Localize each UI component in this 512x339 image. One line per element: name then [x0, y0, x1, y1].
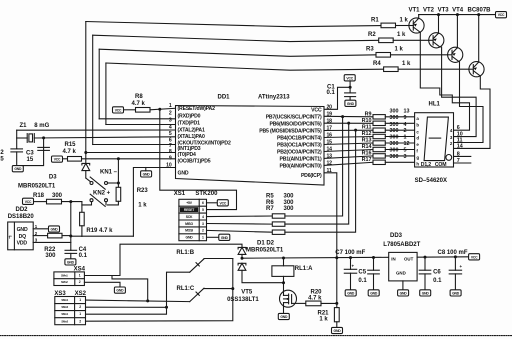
pin label PB2(OC0A/PCINT2)	[277, 150, 322, 156]
value R1 1 k	[400, 18, 409, 24]
pin number 4 DD1	[169, 124, 172, 130]
svg-text:L7805ABD2T: L7805ABD2T	[383, 242, 420, 248]
svg-text:SD–54620X: SD–54620X	[415, 178, 447, 184]
svg-text:GND: GND	[178, 171, 189, 177]
svg-text:DD3: DD3	[390, 233, 403, 239]
svg-text:b: b	[416, 123, 419, 128]
label XS1	[174, 191, 186, 197]
display pin 12	[404, 141, 410, 147]
pin number 2 DD2	[35, 231, 38, 236]
wire XS3 pin2	[86, 306, 169, 309]
label R10	[362, 118, 372, 124]
pin label VDD DD2	[17, 241, 28, 247]
svg-text:300: 300	[45, 253, 56, 259]
resistor R19	[80, 212, 85, 226]
dotted separator line	[0, 335, 512, 337]
display segment letter a	[416, 116, 419, 121]
wire VCC flag to R18	[34, 201, 47, 203]
resistor R10	[373, 121, 385, 125]
svg-text:R7: R7	[266, 206, 274, 212]
pin label (INT1)PD3	[178, 146, 201, 152]
pin label GND	[178, 171, 189, 177]
svg-text:DD1: DD1	[218, 95, 231, 101]
svg-text:(T0)PD4: (T0)PD4	[178, 152, 196, 158]
svg-text:BC807B: BC807B	[468, 8, 492, 14]
svg-text:MBR0520LT1: MBR0520LT1	[246, 248, 284, 254]
display segment letter c	[416, 129, 419, 134]
svg-text:GND: GND	[400, 291, 408, 295]
wire rail to RL1:A	[283, 258, 285, 266]
label C8 100 mF	[438, 250, 468, 256]
svg-text:R21: R21	[318, 310, 330, 316]
wire R9 to display	[385, 116, 414, 118]
svg-text:4.7 k: 4.7 k	[63, 149, 77, 155]
svg-text:DD2: DD2	[16, 207, 29, 213]
wire XS1 MOSI to R7	[207, 230, 273, 232]
wire digit bus 2 vertical	[92, 35, 94, 144]
wire VT4 emitter up	[478, 15, 480, 63]
svg-text:(TXD)PD1: (TXD)PD1	[178, 120, 201, 126]
wire R23 top	[117, 159, 119, 188]
display inner pin 3	[450, 135, 453, 140]
svg-text:1 k: 1 k	[319, 317, 328, 323]
svg-text:300: 300	[390, 148, 399, 154]
pin number 1 DD1	[169, 103, 172, 109]
label C1	[327, 85, 335, 91]
svg-text:SCK: SCK	[186, 215, 193, 219]
wire DD1 pin 12 to R17	[324, 162, 373, 165]
pin number 9 DD1	[169, 156, 172, 162]
svg-text:VCC: VCC	[54, 158, 61, 162]
svg-text:ATtiny2313: ATtiny2313	[258, 95, 290, 101]
svg-text:0.1: 0.1	[433, 278, 442, 284]
label R1	[371, 18, 379, 24]
transistor VT2	[429, 33, 444, 48]
wire R16 to display	[385, 155, 414, 157]
wire DD3 OUT rail	[417, 255, 469, 258]
wire R10 to display	[385, 122, 414, 124]
svg-text:R23: R23	[137, 188, 149, 194]
wire digit bus 3 vertical	[98, 49, 100, 119]
label R17	[362, 157, 372, 163]
svg-text:GND: GND	[143, 172, 151, 176]
pin number 1 DD2	[35, 224, 38, 229]
pin label PB5 (MOSI/DI/SDA/PCINT5)	[259, 129, 322, 135]
capacitor C4	[65, 250, 77, 259]
value R9 300	[390, 108, 399, 114]
wire C1 node to pin 20	[324, 87, 350, 109]
label Z1	[20, 123, 28, 129]
svg-text:C5: C5	[358, 270, 366, 276]
wire display pin 7 stub	[454, 162, 471, 164]
label VT1	[409, 8, 421, 14]
display pin 1	[404, 135, 407, 141]
svg-text:300: 300	[390, 122, 399, 128]
svg-text:2: 2	[404, 128, 407, 134]
display segment letter f	[416, 149, 418, 154]
label RL1:B	[176, 250, 194, 256]
pin label DQ DD2	[19, 234, 27, 240]
svg-text:PB5 (MOSI/DI/SDA/PCINT5): PB5 (MOSI/DI/SDA/PCINT5)	[259, 129, 322, 135]
label D3	[49, 175, 57, 181]
resistor R1	[381, 23, 396, 28]
svg-text:(OC0B/T1)PD5: (OC0B/T1)PD5	[178, 159, 211, 165]
label R13	[362, 138, 372, 144]
ground flag XS1	[219, 234, 230, 240]
pin label PB4(OC1B/PCINT4)	[277, 136, 322, 142]
wire DD1 pin 19 to R9	[324, 115, 373, 118]
pin number 2 DD1	[169, 111, 172, 117]
pin label (OC0B/T1)PD5	[178, 159, 211, 165]
voltage regulator DD3	[389, 252, 417, 281]
pin label PB1(AIN1/PCINT1)	[280, 157, 322, 163]
label BC807B	[468, 8, 492, 14]
wire VT2 emitter up	[438, 15, 440, 34]
label KN2	[93, 191, 111, 197]
svg-text:RL1:B: RL1:B	[176, 250, 194, 256]
svg-text:Z1: Z1	[20, 123, 28, 129]
svg-text:300: 300	[284, 194, 295, 200]
label SD-54620X	[415, 178, 447, 184]
svg-text:XS1: XS1	[174, 191, 186, 197]
svg-text:HL1: HL1	[429, 102, 441, 108]
pin number 11 DD1	[327, 168, 332, 174]
svg-text:300: 300	[284, 206, 295, 212]
display decimal point	[446, 155, 452, 161]
label R4	[373, 61, 381, 67]
svg-text:7: 7	[169, 143, 172, 149]
connector XS3 XS2	[55, 297, 86, 325]
svg-text:R10: R10	[362, 118, 372, 124]
resistor R16	[373, 154, 385, 158]
wire R23 bottom to KN2	[108, 201, 119, 205]
capacitor C3	[38, 138, 50, 151]
svg-text:C8 100 mF: C8 100 mF	[438, 250, 468, 256]
wire R12 to display	[385, 136, 414, 138]
svg-text:R16: R16	[362, 150, 372, 156]
svg-text:KN2 +: KN2 +	[93, 191, 111, 197]
label C5	[358, 270, 366, 276]
wire KN2 to R19 line	[82, 202, 92, 205]
wire VT4 collector to display pin 14	[454, 76, 491, 148]
svg-text:300: 300	[284, 200, 295, 206]
svg-text:MOSI: MOSI	[185, 229, 193, 233]
pin label (TXD)PD1	[178, 120, 201, 126]
wire pin10 flag stub	[145, 168, 147, 171]
wire into pin 8	[86, 152, 176, 154]
ground flag C1	[345, 100, 356, 106]
op-amp U1 MCU body DD1	[176, 106, 325, 186]
svg-text:SMn1: SMn1	[61, 298, 68, 302]
svg-text:R5: R5	[266, 194, 274, 200]
svg-text:C4: C4	[79, 247, 87, 253]
ground flag MCU pin 10	[141, 171, 152, 177]
svg-text:VDD: VDD	[17, 241, 28, 247]
svg-text:RL1:A: RL1:A	[295, 266, 313, 272]
label MBR0520LT1 for D1 D2	[246, 248, 284, 254]
value R23 1 k	[138, 203, 147, 209]
wire into pin 3	[106, 124, 176, 126]
label HL1	[429, 102, 441, 108]
wire digit bus 1 vertical	[85, 22, 87, 164]
svg-text:R13: R13	[362, 138, 372, 144]
display pin 9	[404, 115, 407, 121]
svg-text:PB6(MISO/DO/PCINT6): PB6(MISO/DO/PCINT6)	[270, 121, 322, 127]
power flag VCC at R15	[52, 156, 63, 162]
power flag VCC at R8	[113, 107, 124, 113]
label ATtiny2313	[258, 95, 290, 101]
wire R14 to display	[385, 149, 414, 151]
label RL1:C	[177, 286, 195, 292]
wire DD2 DQ pin to R22	[33, 235, 47, 237]
wire GND riser to pin 10	[133, 168, 175, 237]
pin number 18 DD1	[327, 118, 333, 124]
pin number 3 DD1	[169, 117, 172, 123]
svg-text:OUT: OUT	[404, 256, 414, 261]
svg-text:1: 1	[404, 135, 407, 141]
display pin 4	[404, 122, 407, 128]
svg-text:GND: GND	[51, 228, 59, 232]
svg-text:300: 300	[390, 141, 399, 147]
transistor VT3	[448, 47, 463, 62]
label VT4	[452, 8, 464, 14]
wire C3 down to ground	[17, 150, 44, 165]
ground flag C4	[65, 259, 76, 265]
wire DD2 GND pin	[33, 228, 48, 230]
svg-text:R18: R18	[33, 193, 45, 199]
value C1 0.1	[327, 90, 336, 96]
relay coil RL1:A	[272, 266, 294, 277]
svg-text:XS3: XS3	[54, 291, 66, 297]
svg-text:0.1: 0.1	[358, 278, 367, 284]
label C2 clipped	[0, 150, 4, 156]
resistor R18	[47, 199, 62, 204]
display segment letter e	[416, 142, 419, 147]
resistor R21	[334, 308, 339, 322]
svg-text:VCC: VCC	[220, 201, 227, 205]
value R3 1 k	[395, 47, 404, 53]
label R3	[366, 47, 374, 53]
wire DD2 VDD pin	[33, 241, 71, 243]
pin label PB0(AIN0/PCINT0)	[280, 164, 322, 170]
value R4 1 k	[402, 61, 411, 67]
svg-text:2: 2	[35, 231, 38, 236]
svg-text:3: 3	[35, 238, 38, 243]
display pin 13	[404, 108, 410, 114]
svg-text:PB0(AIN0/PCINT0): PB0(AIN0/PCINT0)	[280, 164, 322, 170]
pin label (XTAL1)PA0	[178, 134, 205, 140]
svg-text:4: 4	[404, 122, 407, 128]
svg-text:PB4(OC1B/PCINT4): PB4(OC1B/PCINT4)	[277, 136, 322, 142]
resistor R3	[376, 53, 391, 58]
pin label (RESET/dW)PA2	[178, 106, 216, 112]
transistor VT5 MOSFET	[280, 290, 297, 307]
resistor R23	[116, 187, 121, 201]
display pin 5	[404, 148, 407, 154]
wire R15 to pin 9	[63, 158, 68, 160]
wire VT5 gate to R20	[292, 302, 306, 304]
label L7805ABD2T	[383, 242, 420, 248]
label R18	[33, 193, 45, 199]
svg-text:12: 12	[404, 141, 410, 147]
wire DD1 pin 15 to R13	[324, 143, 373, 145]
power flag VCC top right	[496, 12, 507, 18]
value C4 0.1	[79, 253, 88, 259]
label R8	[135, 94, 143, 100]
wire R13 to display	[385, 142, 414, 144]
svg-text:C2: C2	[0, 150, 4, 156]
value R17 300	[390, 154, 399, 160]
svg-text:C3: C3	[26, 151, 34, 157]
svg-text:R6: R6	[266, 200, 274, 206]
ground flag C6	[420, 290, 431, 296]
svg-text:C7 100 mF: C7 100 mF	[335, 250, 365, 256]
wire VT1 emitter up	[418, 15, 420, 19]
svg-text:VT4: VT4	[452, 8, 464, 14]
pin number 5 DD1	[169, 131, 172, 137]
svg-text:20: 20	[327, 105, 333, 111]
resistor R7	[272, 230, 285, 234]
svg-text:0SS138LT1: 0SS138LT1	[227, 297, 259, 303]
label 0SS138LT1	[227, 297, 259, 303]
svg-text:1 k: 1 k	[138, 203, 147, 209]
display pin 7 label	[457, 158, 460, 164]
capacitor C6	[419, 257, 431, 290]
capacitor C7	[344, 258, 356, 290]
resistor R22	[48, 233, 62, 238]
display pin 11 label	[457, 138, 463, 144]
svg-text:GND: GND	[347, 291, 355, 295]
value R7 300	[284, 206, 295, 212]
svg-text:300: 300	[390, 154, 399, 160]
wire crystal to XTAL1	[34, 136, 175, 139]
wire R11 to display	[385, 129, 414, 131]
svg-text:(INT1)PD3: (INT1)PD3	[178, 146, 201, 152]
wire R19 bottom	[81, 226, 83, 237]
svg-text:VT3: VT3	[438, 8, 450, 14]
svg-text:GND: GND	[14, 167, 22, 171]
pin number 15 DD1	[327, 140, 333, 146]
svg-text:R1: R1	[371, 18, 379, 24]
label DD2	[16, 207, 29, 213]
relay contact RL1:C	[190, 288, 204, 301]
wire display pin 8 stub	[454, 155, 471, 157]
wire XS1 GND	[207, 236, 219, 238]
label C6	[433, 270, 441, 276]
wire DD1 pin 18 to R10	[324, 122, 373, 124]
svg-text:VT1: VT1	[409, 8, 421, 14]
resistor R11	[373, 128, 385, 132]
value R8 4.7 k	[132, 101, 146, 107]
svg-text:300: 300	[390, 135, 399, 141]
svg-text:(RXD)PD0: (RXD)PD0	[178, 114, 201, 120]
pin number 20 DD1	[327, 105, 333, 111]
value C6 0.1	[433, 278, 442, 284]
pin number 17 DD1	[327, 126, 333, 132]
svg-text:DS18B20: DS18B20	[8, 214, 35, 220]
label XS4	[74, 267, 86, 273]
wire DD1 pin 17 to R11	[324, 129, 373, 131]
wire junction to R21	[336, 303, 338, 307]
wire digit bus top line to R3	[99, 49, 376, 56]
wire XS1 SCK to R5	[207, 215, 273, 218]
pin number 7 DD1	[169, 143, 172, 149]
value C3 15	[27, 157, 34, 163]
transistor VT1	[409, 18, 424, 33]
wire D2 return	[242, 270, 284, 282]
junction digit bus 1 and pin 8 wire	[84, 151, 87, 154]
label DS18B20	[8, 214, 35, 220]
resistor R4	[384, 67, 399, 72]
pin label (CKOUT/XCK/INT0)PD2	[178, 141, 231, 147]
switch KN2	[90, 194, 108, 206]
wire PD6 pin 11 to gate network	[324, 173, 337, 304]
svg-text:SMn1: SMn1	[61, 273, 68, 277]
value R13 300	[390, 135, 399, 141]
switch KN1	[90, 177, 108, 189]
label R22	[44, 247, 56, 253]
wire R20 to junction	[321, 302, 338, 305]
value R21 1 k	[319, 317, 328, 323]
value R22 300	[45, 253, 56, 259]
svg-text:GND: GND	[422, 291, 430, 295]
display pin 8 label	[457, 152, 460, 158]
svg-text:DQ: DQ	[19, 234, 27, 240]
wire R4 to VT4 base	[398, 68, 469, 70]
wire DD1 pin 16 to R12	[324, 137, 373, 138]
wire XS4 pin2 to ground	[84, 282, 120, 287]
wire main 12V rail to regulator	[241, 256, 389, 260]
junction DQ node	[69, 235, 72, 238]
wire XTAL2 down leg	[16, 130, 18, 148]
wire crystal left stub	[17, 137, 28, 139]
resistor R13	[373, 141, 385, 145]
svg-text:GND: GND	[334, 329, 342, 333]
label MBR0520LT1 for D3	[18, 184, 56, 190]
svg-text:R11: R11	[362, 125, 372, 131]
crystal Z1	[27, 134, 34, 143]
svg-text:D3: D3	[49, 175, 57, 181]
svg-text:8 mG: 8 mG	[34, 123, 49, 129]
svg-text:GND: GND	[347, 102, 355, 106]
svg-text:+: +	[352, 264, 355, 269]
display HL1 body	[415, 113, 454, 167]
svg-text:300: 300	[52, 193, 63, 199]
wire VT5 source to ground	[283, 307, 285, 313]
label D1 D2	[257, 240, 275, 246]
svg-text:(RESET/dW)PA2: (RESET/dW)PA2	[178, 106, 216, 112]
svg-text:GND: GND	[221, 236, 229, 240]
svg-text:GND: GND	[396, 270, 406, 275]
svg-text:1 k: 1 k	[402, 61, 411, 67]
wire R21 to ground	[336, 322, 338, 328]
svg-text:1 k: 1 k	[397, 32, 406, 38]
wire R15 to chip pin 9	[82, 157, 176, 160]
label DD1	[218, 95, 231, 101]
wire R7 to MOSI riser	[285, 129, 357, 233]
power flag VCC at XS1	[217, 200, 228, 206]
wire digit bus top line to R4	[106, 63, 384, 70]
label R14	[362, 144, 372, 150]
svg-text:1 k: 1 k	[400, 18, 409, 24]
svg-text:R9: R9	[365, 111, 372, 117]
pin number 19 DD1	[327, 112, 333, 118]
wire DD1 pin 13 to R16	[324, 156, 373, 159]
resistor R8	[136, 108, 151, 113]
svg-text:VCC: VCC	[498, 13, 505, 17]
pin number 10 DD1	[166, 163, 172, 169]
svg-text:1 k: 1 k	[395, 47, 404, 53]
